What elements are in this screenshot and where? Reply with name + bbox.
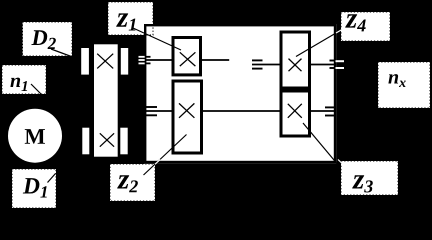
- intermediate shaft left segment: [146, 110, 172, 112]
- intermediate shaft right segment: [310, 110, 336, 112]
- label box D1: [12, 169, 56, 208]
- X mark gear z3: [288, 104, 302, 118]
- gear z4: [281, 32, 310, 88]
- pulley D1 right flange: [120, 128, 127, 155]
- leader line D1: [48, 174, 56, 183]
- gearbox housing outline: [145, 25, 335, 162]
- pulley D2 right flange: [121, 48, 128, 75]
- label box n1: [2, 65, 46, 94]
- gear z3: [281, 91, 310, 136]
- bearing intermediate shaft left wall: [145, 107, 157, 115]
- bearing intermediate shaft right wall: [325, 107, 336, 115]
- X mark gear z2: [179, 103, 194, 117]
- label box z3: [341, 161, 398, 195]
- leader line z4 white part: [336, 30, 342, 34]
- intermediate shaft middle segment: [202, 110, 281, 112]
- X mark pulley D2: [97, 54, 113, 69]
- leader line z3 white part: [338, 160, 344, 165]
- belt: [94, 44, 118, 156]
- label box z1: [108, 2, 153, 35]
- output shaft left segment: [252, 64, 281, 66]
- X mark gear z1: [180, 52, 196, 66]
- gear z1: [173, 38, 201, 75]
- pulley D1 left flange: [82, 128, 89, 155]
- X mark gear z4: [289, 59, 302, 72]
- pulley D2 left flange: [81, 48, 89, 75]
- input shaft right stub: [202, 59, 229, 61]
- leader line n1: [31, 84, 42, 95]
- bearing output shaft right wall: [330, 61, 345, 69]
- leader line z2: [144, 135, 187, 176]
- leader line z4: [296, 33, 336, 57]
- label box D2: [23, 22, 73, 56]
- X mark pulley D1: [100, 133, 114, 146]
- label box z2: [110, 164, 155, 201]
- gear z2: [173, 81, 202, 153]
- label box nk: [378, 62, 430, 108]
- gearbox housing fill: [144, 24, 336, 163]
- bearing input shaft left wall: [139, 57, 151, 64]
- input shaft: [145, 59, 172, 61]
- input shaft (white part outside housing): [139, 59, 145, 61]
- leader line z2 white part over gap: [155, 159, 160, 164]
- leader line z3: [303, 123, 336, 163]
- leader line D2: [51, 49, 74, 58]
- leader line z1: [133, 28, 181, 50]
- bearing output shaft left end: [252, 60, 263, 68]
- label box z4: [341, 12, 390, 41]
- motor M: [8, 109, 62, 163]
- output shaft right segment: [310, 64, 336, 66]
